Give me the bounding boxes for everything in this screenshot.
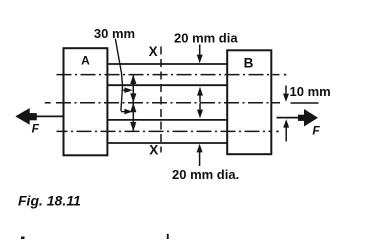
- rod 2 centerline: [57, 130, 272, 132]
- block B: [227, 50, 271, 154]
- bottom remnant bar: [167, 234, 169, 239]
- dim 30mm bottom arrowhead: [130, 122, 136, 131]
- svg-text:Fig. 18.11: Fig. 18.11: [18, 193, 81, 209]
- gap down arrow (axis to rod2): [199, 103, 201, 112]
- right force arrow F: [277, 117, 300, 119]
- 10mm lower arrow: [285, 128, 287, 142]
- dimension 30mm vertical line: [132, 75, 134, 132]
- svg-text:20 mm dia: 20 mm dia: [174, 31, 238, 46]
- leader arrow lower: [121, 111, 126, 113]
- rod 2 top edge: [107, 119, 227, 121]
- dim 30mm middle up arrowhead: [130, 103, 136, 112]
- leader arrow upper: [122, 89, 126, 91]
- rod 1 bottom edge: [107, 84, 227, 86]
- bottom remnant blob: [21, 237, 25, 240]
- rod 2 bottom edge: [107, 142, 227, 144]
- left force arrow F: [36, 115, 64, 117]
- svg-text:A: A: [81, 54, 90, 68]
- bottom 20mm arrow: [199, 152, 201, 167]
- svg-text:X: X: [149, 44, 158, 59]
- rod 1 top edge: [107, 63, 227, 65]
- 10mm upper arrow: [285, 86, 287, 95]
- dim 30mm top arrowhead: [130, 75, 136, 84]
- svg-text:30 mm: 30 mm: [94, 26, 135, 41]
- leader from 30 mm label: [115, 39, 122, 111]
- svg-text:10 mm: 10 mm: [290, 84, 331, 99]
- dim 30mm middle down arrowhead: [130, 93, 136, 102]
- rod 2 centerline end dot: [276, 131, 278, 133]
- svg-text:20 mm dia.: 20 mm dia.: [172, 167, 239, 182]
- middle axis long dash under 10 mm: [291, 102, 319, 104]
- middle axis centerline left dash: [45, 102, 51, 104]
- block A: [64, 48, 108, 155]
- middle axis centerline: [56, 102, 280, 104]
- top 20mm arrow: [199, 45, 201, 57]
- section line X-X: [160, 47, 162, 153]
- svg-text:F: F: [32, 121, 40, 135]
- svg-text:B: B: [244, 56, 254, 71]
- svg-text:F: F: [312, 123, 320, 137]
- svg-text:X: X: [149, 143, 158, 158]
- rod 1 centerline: [57, 74, 280, 76]
- rod 1 centerline end dot: [284, 74, 286, 76]
- gap up arrow (rod1 to axis): [199, 93, 201, 102]
